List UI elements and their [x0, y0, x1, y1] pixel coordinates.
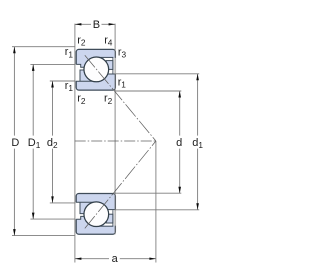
dimension d1 extension bottom	[115, 209, 199, 211]
arrowhead d2 up	[51, 81, 54, 88]
axis center line (dash-dot)	[75, 140, 157, 142]
arrowhead d1 down	[196, 203, 199, 210]
dimension B line	[75, 23, 91, 25]
arrowhead a left	[75, 258, 82, 260]
arrowhead d2 down	[51, 196, 54, 203]
arrowhead D1 up	[32, 64, 35, 71]
dimension D vertical	[13, 47, 15, 136]
arrowhead B left	[75, 23, 82, 25]
arrowhead D up	[13, 47, 16, 54]
dimension D1 extension bottom	[30, 218, 75, 220]
arrowhead a right	[149, 258, 156, 260]
bottom bearing section (mirrored)	[76, 194, 117, 235]
svg-text:r1: r1	[65, 46, 74, 59]
wire a right extension vertical	[155, 141, 157, 263]
svg-text:d: d	[176, 137, 182, 149]
svg-text:r2: r2	[104, 93, 113, 106]
dimension d1 extension top	[115, 73, 199, 75]
svg-text:r3: r3	[118, 46, 127, 59]
arrowhead d down	[178, 187, 181, 194]
svg-text:r2: r2	[77, 35, 86, 48]
dimension d2 extension top	[50, 80, 76, 82]
svg-text:a: a	[112, 253, 119, 265]
dimension d extension top	[115, 90, 181, 92]
dimension d2 vertical	[52, 81, 54, 136]
arrowhead D1 down	[32, 213, 35, 220]
arrowhead D down	[13, 229, 16, 236]
top bearing section	[76, 49, 117, 90]
contact angle line bottom (dash-dot)	[85, 141, 156, 228]
svg-text:B: B	[93, 19, 100, 31]
svg-text:D1: D1	[28, 137, 41, 150]
contact angle line top (dash-dot)	[85, 55, 156, 141]
arrowhead B right	[109, 23, 116, 25]
dimension D1 extension top	[30, 63, 75, 65]
dimension d2 extension bottom	[50, 202, 76, 204]
dimension d1 vertical	[197, 74, 199, 136]
dimension d vertical	[179, 91, 181, 136]
dimension D extension top	[12, 46, 75, 48]
svg-text:D: D	[11, 137, 19, 149]
dimension D1 vertical	[32, 64, 34, 135]
svg-text:r1: r1	[118, 76, 127, 89]
dimension d extension bottom	[115, 192, 181, 194]
svg-text:d2: d2	[47, 137, 58, 150]
svg-text:r2: r2	[77, 93, 86, 106]
dimension D extension bottom	[12, 235, 75, 237]
arrowhead d1 up	[196, 74, 199, 81]
svg-text:r4: r4	[104, 35, 113, 48]
dimension a line	[75, 258, 109, 260]
wire right extension line (B)	[114, 24, 116, 235]
wire left extension line (B/a) full height	[74, 24, 76, 263]
arrowhead d up	[178, 91, 181, 98]
svg-text:r1: r1	[65, 80, 74, 93]
svg-text:d1: d1	[192, 137, 203, 150]
